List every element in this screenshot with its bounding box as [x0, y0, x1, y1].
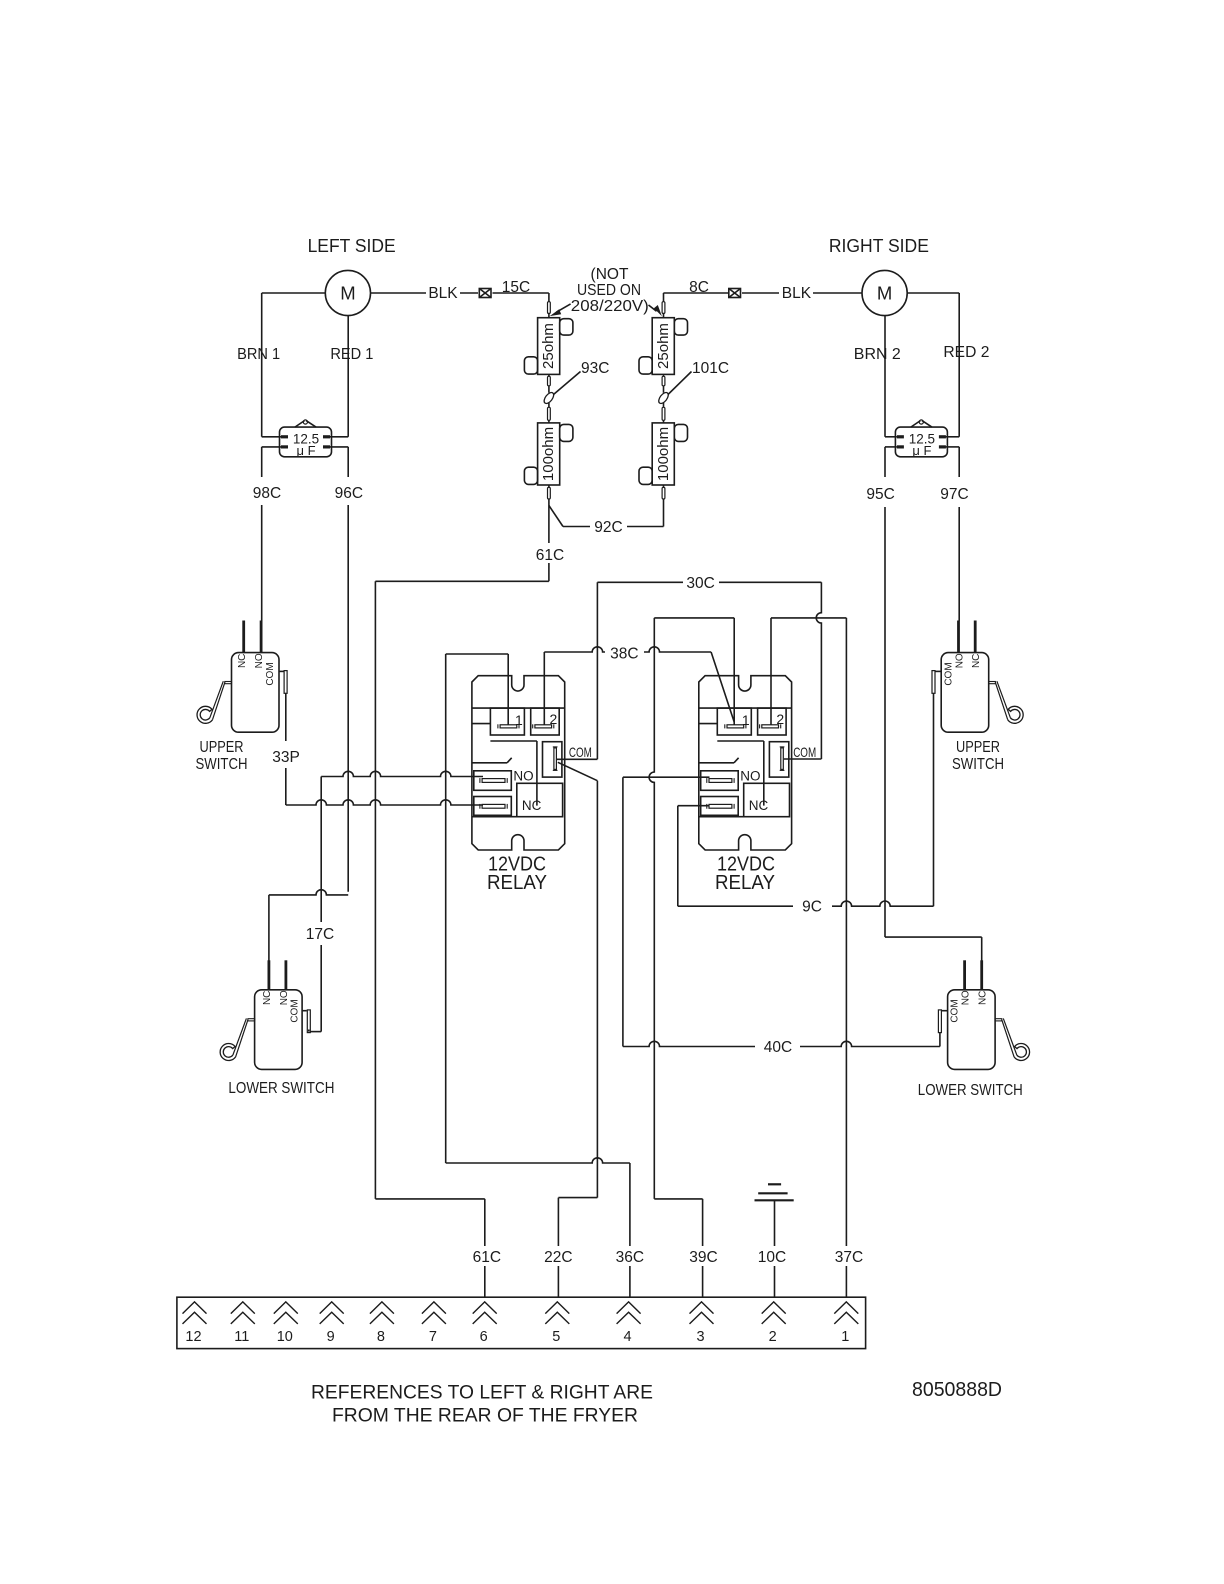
svg-text:8: 8 [377, 1329, 385, 1345]
svg-text:8C: 8C [689, 279, 709, 296]
wire BRN1 upper [261, 293, 263, 437]
wire 9C to upper-right COM [933, 693, 935, 906]
svg-text:5: 5 [552, 1329, 560, 1345]
svg-text:FROM THE REAR OF THE FRYER: FROM THE REAR OF THE FRYER [332, 1405, 638, 1427]
svg-text:NC: NC [978, 991, 989, 1005]
svg-text:COM: COM [793, 744, 816, 760]
svg-text:25ohm: 25ohm [540, 323, 557, 369]
wire 36C jog [446, 1158, 630, 1297]
svg-text:BLK: BLK [782, 285, 812, 302]
svg-text:8050888D: 8050888D [912, 1378, 1002, 1401]
wire 92C [549, 506, 664, 527]
wire BRN1 lower 98C [261, 447, 263, 621]
label 92C [594, 519, 622, 536]
relay K2 body [699, 676, 792, 850]
label BRN 1 [237, 346, 280, 363]
label splice 93C [554, 360, 610, 395]
svg-text:7: 7 [429, 1329, 437, 1345]
switch S4 lower-right [938, 960, 1029, 1069]
label 33P [272, 749, 300, 766]
svg-text:BRN 2: BRN 2 [854, 346, 901, 363]
terminal strip TB1 [177, 1297, 866, 1348]
wire relay2 pin2 feed [771, 618, 846, 725]
label 36C [616, 1249, 644, 1266]
label UPPER SWITCH right [952, 739, 1004, 773]
svg-text:61C: 61C [536, 547, 564, 564]
svg-text:33P: 33P [272, 749, 300, 766]
inline connector left [479, 289, 491, 298]
relay K1 body [472, 676, 565, 850]
label 97C [940, 486, 968, 503]
svg-text:COM: COM [943, 662, 954, 685]
wire relay1 COM diagonal [558, 762, 598, 780]
svg-text:COM: COM [569, 744, 592, 760]
capacitor C1 12.5uF left [280, 420, 332, 458]
svg-text:10: 10 [277, 1329, 293, 1345]
svg-text:11: 11 [234, 1329, 249, 1345]
svg-text:USED ON: USED ON [577, 282, 641, 299]
svg-text:3: 3 [696, 1329, 704, 1345]
svg-text:1: 1 [742, 712, 750, 728]
label 61C mid [536, 547, 564, 564]
switch S1 upper-left [197, 621, 287, 733]
svg-text:92C: 92C [594, 519, 622, 536]
leader arrow left [550, 304, 571, 316]
svg-text:40C: 40C [764, 1039, 792, 1056]
label 38C [610, 646, 638, 663]
svg-text:38C: 38C [610, 646, 638, 663]
wire 38C [544, 647, 734, 722]
wire relay2 NO feed [623, 776, 710, 778]
svg-text:100ohm: 100ohm [655, 427, 672, 481]
label UPPER SWITCH left [196, 739, 248, 773]
svg-text:COM: COM [950, 999, 961, 1022]
svg-text:NO: NO [740, 769, 760, 784]
leader arrow right [649, 305, 662, 316]
wire cap2 stubs [885, 437, 959, 447]
switch S2 upper-right [932, 621, 1023, 733]
wire 61C vertical [374, 581, 376, 1199]
wire 30C right drop to relay2 COM [784, 582, 822, 759]
wire cap1 stubs [262, 437, 349, 447]
svg-text:NC: NC [749, 798, 769, 813]
svg-text:NC: NC [971, 654, 982, 668]
svg-text:SWITCH: SWITCH [952, 756, 1004, 773]
wire BRN2 lower 95C [884, 447, 886, 937]
wire RED1 lower 96C [347, 447, 349, 892]
svg-text:LEFT SIDE: LEFT SIDE [308, 235, 396, 256]
svg-text:1: 1 [515, 712, 523, 728]
label 15C [502, 279, 530, 296]
svg-text:NO: NO [279, 990, 290, 1005]
label 8C [689, 279, 709, 296]
label 39C [689, 1249, 717, 1266]
label BLK left [428, 285, 458, 302]
svg-text:SWITCH: SWITCH [196, 756, 248, 773]
wire 17C to lower-left COM [309, 1030, 321, 1032]
label LOWER SWITCH right [918, 1082, 1023, 1099]
svg-text:COM: COM [290, 999, 301, 1022]
label 22C [544, 1249, 572, 1266]
label 30C [686, 575, 714, 592]
svg-text:μ F: μ F [296, 443, 315, 458]
label 8050888D [912, 1378, 1002, 1401]
wire relay1 pin1 feed [446, 654, 509, 725]
svg-text:101C: 101C [692, 360, 729, 377]
svg-text:15C: 15C [502, 279, 530, 296]
svg-text:LOWER SWITCH: LOWER SWITCH [918, 1082, 1023, 1099]
label RIGHT SIDE [829, 235, 929, 256]
svg-text:NC: NC [522, 798, 542, 813]
svg-text:RED 2: RED 2 [943, 344, 989, 361]
wire relay2 NC feed [678, 806, 710, 907]
wire 22C drop [596, 781, 598, 1198]
wire relay1 pin1 drop [445, 654, 447, 1163]
svg-text:30C: 30C [686, 575, 714, 592]
wire 17C feed (relay1 NO) [321, 771, 483, 776]
svg-text:1: 1 [841, 1329, 849, 1345]
wire 22C jog [558, 1198, 597, 1298]
svg-text:95C: 95C [866, 486, 894, 503]
label 95C [866, 486, 894, 503]
wire relay1 pin2 feed [543, 652, 545, 725]
svg-text:98C: 98C [253, 485, 281, 502]
svg-text:UPPER: UPPER [956, 739, 1000, 756]
svg-text:NC: NC [237, 654, 248, 668]
note references [311, 1382, 653, 1427]
svg-text:2: 2 [776, 711, 784, 727]
wire motor-right to RED2 [907, 292, 959, 294]
svg-text:97C: 97C [940, 486, 968, 503]
wire 37C drop [845, 618, 847, 1297]
svg-text:μ F: μ F [912, 443, 931, 458]
note (NOT USED ON 208/220V) [571, 266, 649, 315]
wire RED2 lower 97C [958, 447, 960, 621]
svg-text:COM: COM [265, 662, 276, 685]
label RED 1 [330, 346, 373, 363]
svg-text:208/220V): 208/220V) [571, 298, 649, 315]
wire BLK right [663, 292, 862, 294]
svg-text:39C: 39C [689, 1249, 717, 1266]
wire BRN2 to lower-right NC [885, 937, 982, 960]
label splice 101C [668, 360, 729, 395]
label 37C [835, 1249, 863, 1266]
svg-text:22C: 22C [544, 1249, 572, 1266]
svg-text:4: 4 [624, 1329, 632, 1345]
switch S3 lower-left [220, 960, 310, 1069]
wire relay2 pin1 feed [654, 618, 734, 725]
svg-text:LOWER SWITCH: LOWER SWITCH [228, 1080, 334, 1097]
svg-text:RIGHT SIDE: RIGHT SIDE [829, 235, 929, 256]
svg-text:17C: 17C [306, 926, 334, 943]
label 96C [335, 485, 363, 502]
label relay K1 12VDC RELAY [487, 854, 547, 894]
label 17C [306, 926, 334, 943]
svg-text:REFERENCES TO LEFT & RIGHT ARE: REFERENCES TO LEFT & RIGHT ARE [311, 1382, 653, 1404]
svg-text:2: 2 [769, 1329, 777, 1345]
wire 39C jog [654, 1199, 702, 1297]
svg-text:UPPER: UPPER [200, 739, 244, 756]
svg-text:2: 2 [550, 711, 558, 727]
svg-text:25ohm: 25ohm [655, 323, 672, 369]
svg-text:37C: 37C [835, 1249, 863, 1266]
wire 40C to lower-right COM [939, 1032, 941, 1046]
wire relay2 pin1 drop [649, 618, 654, 1199]
capacitor C2 12.5uF right [895, 420, 947, 458]
wire 40C [623, 1041, 940, 1046]
resistor chain right (25ohm + 100ohm) [639, 293, 688, 506]
svg-text:NO: NO [513, 769, 533, 784]
resistor chain left (25ohm + 100ohm) [524, 293, 573, 506]
label relay K2 12VDC RELAY [715, 854, 775, 894]
wire 40C drop [622, 777, 624, 1046]
wire 61C horizontal [375, 580, 549, 582]
ground symbol [755, 1184, 794, 1297]
svg-text:M: M [877, 282, 892, 303]
svg-text:NC: NC [262, 991, 273, 1005]
svg-text:BLK: BLK [428, 285, 458, 302]
svg-text:BRN 1: BRN 1 [237, 346, 280, 363]
label BLK right [782, 285, 812, 302]
wire 61C bottom jog [375, 1199, 484, 1297]
wire RED1 upper [347, 316, 349, 437]
svg-text:RED 1: RED 1 [330, 346, 373, 363]
label relay K2 COM [793, 744, 816, 760]
label 98C [253, 485, 281, 502]
wire 30C left drop to relay1 COM [556, 582, 597, 759]
svg-text:36C: 36C [616, 1249, 644, 1266]
svg-text:6: 6 [480, 1329, 488, 1345]
label 61C bottom [473, 1249, 501, 1266]
svg-text:NO: NO [961, 990, 972, 1005]
label RED 2 [943, 344, 989, 361]
svg-text:96C: 96C [335, 485, 363, 502]
label BRN 2 [854, 346, 901, 363]
svg-text:M: M [340, 282, 355, 303]
wire 9C [678, 901, 934, 906]
svg-text:10C: 10C [758, 1249, 786, 1266]
wire 17C drop [320, 777, 322, 1032]
svg-text:NO: NO [954, 653, 965, 668]
svg-text:RELAY: RELAY [715, 872, 775, 894]
motor M left [325, 270, 370, 315]
wire BLK left [371, 292, 549, 294]
wire 30C [597, 581, 821, 583]
label 9C [802, 899, 822, 916]
svg-text:93C: 93C [581, 360, 609, 377]
svg-text:12: 12 [185, 1329, 201, 1345]
wire BRN2 upper [884, 316, 886, 437]
label LOWER SWITCH left [228, 1080, 334, 1097]
wire 61C upper [548, 506, 550, 582]
wire RED2 upper [958, 293, 960, 437]
label relay K1 COM [569, 744, 592, 760]
svg-text:RELAY: RELAY [487, 872, 547, 894]
label 40C [764, 1039, 792, 1056]
motor M right [862, 270, 907, 315]
inline connector right [729, 289, 741, 298]
wire motor-left to BRN1 [262, 292, 326, 294]
svg-text:100ohm: 100ohm [540, 427, 557, 481]
label 10C [758, 1249, 786, 1266]
svg-text:9: 9 [327, 1329, 335, 1345]
wire 33P (relay1 NC) [286, 693, 483, 805]
wire 96C to lower-left NC [269, 890, 348, 961]
svg-text:9C: 9C [802, 899, 822, 916]
svg-text:61C: 61C [473, 1249, 501, 1266]
label LEFT SIDE [308, 235, 396, 256]
svg-text:NO: NO [254, 653, 265, 668]
svg-text:(NOT: (NOT [591, 266, 629, 283]
